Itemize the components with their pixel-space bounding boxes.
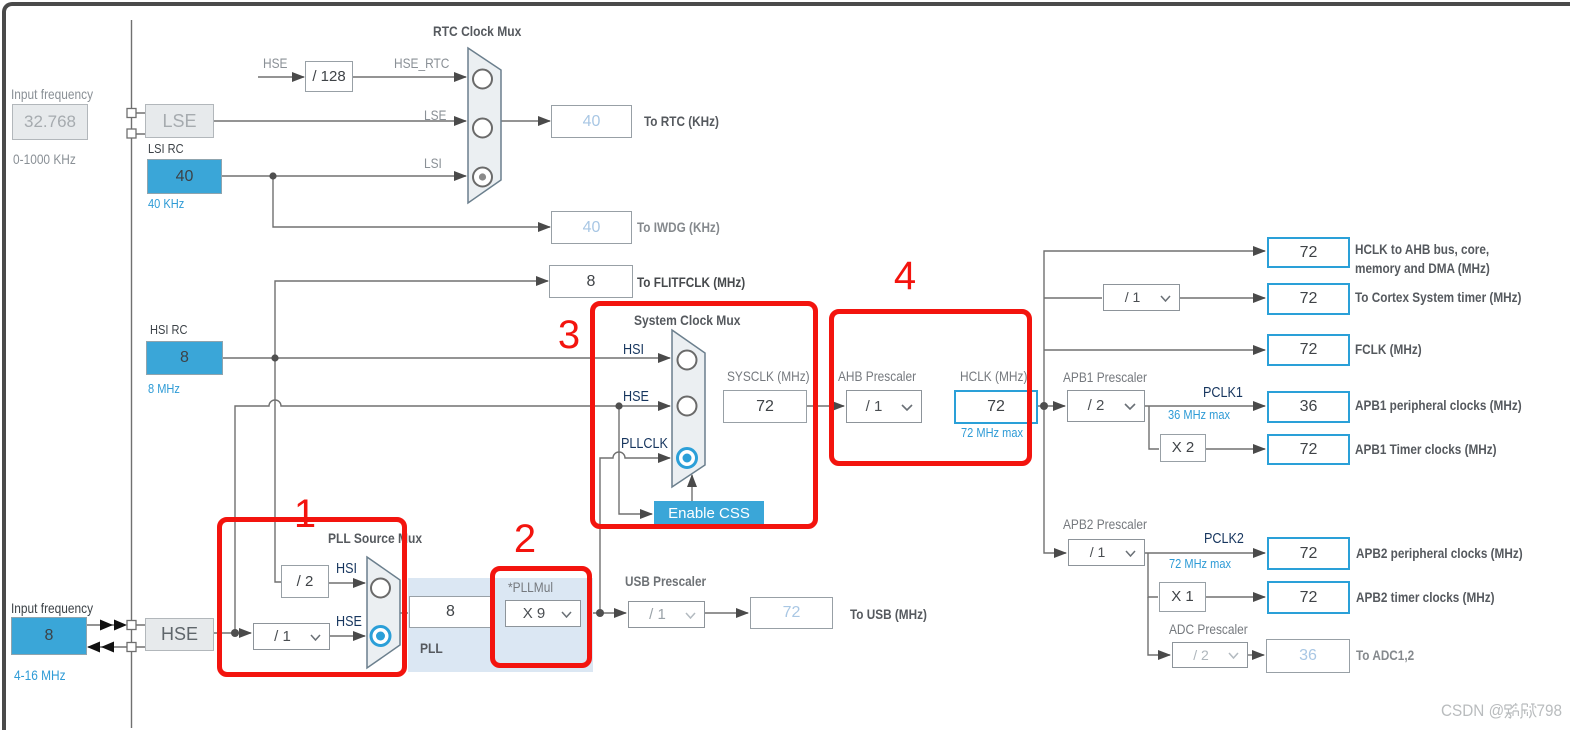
wire: USB prescaler to USB box bbox=[705, 612, 748, 614]
red rect 2: PLLMul bbox=[490, 566, 592, 668]
box: HCLK to AHB 72 bbox=[1267, 237, 1350, 268]
box: HSE input 8 bbox=[11, 617, 87, 655]
box: ADC 36 bbox=[1266, 639, 1350, 673]
label: LSI RC bbox=[148, 141, 184, 156]
dropdown: APB1 prescaler /2 bbox=[1067, 390, 1145, 422]
port squares on bus bbox=[127, 109, 136, 652]
box: To FLITFCLK value bbox=[549, 265, 633, 298]
wire: APB2 prescaler to APB2 peripheral box bbox=[1145, 552, 1265, 554]
box: To RTC value bbox=[551, 105, 632, 138]
wire: branch down to X2 bbox=[1149, 406, 1159, 449]
PLL source mux shape bbox=[367, 557, 400, 668]
box: /128 bbox=[305, 61, 353, 92]
wire: PLLCLK vertical + to system mux PLLCLK input (hop at x=619) bbox=[600, 452, 670, 613]
box: LSE bbox=[145, 104, 214, 138]
wire: RTC mux output to To-RTC box bbox=[501, 120, 550, 122]
box: HCLK 72 bbox=[954, 390, 1038, 424]
wire: Enable CSS up-arrow into mux bbox=[691, 475, 693, 501]
wire: ADC prescaler to ADC box bbox=[1248, 654, 1264, 656]
wire: main clock source vertical bus bbox=[131, 20, 133, 728]
dropdown: APB2 prescaler /1 bbox=[1068, 539, 1145, 566]
wire: PLL /1 to PLL mux HSE input bbox=[330, 635, 365, 637]
wire: bus down to APB2 prescaler bbox=[1044, 406, 1066, 553]
wire: LSI box to RTC mux LSI input bbox=[222, 175, 466, 177]
right bold labels bbox=[644, 113, 719, 129]
box: APB1 timer 72 bbox=[1267, 434, 1350, 465]
wire: HSE branch down to Enable CSS bbox=[619, 406, 652, 514]
box: /2 HSI divider bbox=[281, 565, 329, 598]
red digit 4 bbox=[885, 254, 925, 299]
red rect 3: system clock mux bbox=[590, 301, 818, 529]
box: To IWDG value bbox=[551, 211, 632, 244]
dropdown: PLL entry /1 bbox=[253, 623, 330, 650]
box: FCLK 72 bbox=[1267, 334, 1350, 366]
wire: branch down to X1 bbox=[1148, 553, 1158, 597]
box: USB 72 bbox=[750, 597, 833, 629]
wire: HCLK bus up and to HCLK-AHB output bbox=[1044, 251, 1265, 406]
dropdown: AHB prescaler /1 bbox=[846, 390, 922, 423]
wire: bus to cortex prescaler bbox=[1044, 297, 1102, 299]
box: HSI RC 8 bbox=[146, 341, 223, 375]
red digit 2 bbox=[505, 517, 545, 562]
wire: X2 to APB1 timer box bbox=[1206, 448, 1265, 450]
PLL light blue region bbox=[408, 578, 593, 672]
box: X2 bbox=[1160, 434, 1206, 462]
wire: HCLK box to APB1 prescaler through bus junction bbox=[1038, 405, 1065, 407]
wire: HSE port stubs bbox=[136, 625, 146, 647]
dropdown: ADC prescaler /2 disabled bbox=[1172, 642, 1248, 668]
box: APB1 peripheral 36 bbox=[1267, 391, 1350, 423]
label: HSI RC bbox=[150, 322, 187, 337]
box: LSI 40 bbox=[147, 159, 222, 194]
wire: bus to FCLK output bbox=[1044, 349, 1265, 351]
wire: SYSCLK box to AHB prescaler bbox=[807, 405, 844, 407]
button: Enable CSS bbox=[654, 501, 764, 527]
wire: HSI branch to FLITFCLK bbox=[275, 281, 548, 358]
red rect 4: AHB prescaler/HCLK bbox=[829, 309, 1032, 466]
wire: LSE box to RTC mux LSE input bbox=[214, 120, 466, 122]
prescaler labels bbox=[727, 368, 810, 384]
label: input frequency bottom bbox=[11, 600, 93, 616]
box: APB2 peripheral 72 bbox=[1267, 537, 1350, 570]
wire: APB1 prescaler to APB1 peripheral box bbox=[1145, 405, 1265, 407]
wire: /128 to RTC mux HSE_RTC input bbox=[353, 76, 466, 78]
wire: HSI /2 feed vertical bbox=[275, 358, 281, 582]
watermark bbox=[1441, 701, 1562, 721]
wire: HSE input double arrow lines bbox=[87, 625, 127, 647]
wire: /2 to PLL mux HSI input bbox=[329, 582, 365, 584]
dropdown: USB prescaler /1 disabled bbox=[628, 601, 705, 628]
red digit 1 bbox=[285, 492, 325, 537]
PLL mux radios bbox=[371, 579, 390, 598]
box: APB2 timer 72 bbox=[1267, 581, 1350, 614]
HSE input double arrowheads right bbox=[87, 620, 127, 653]
dropdown: cortex prescaler /1 bbox=[1103, 284, 1180, 311]
box: PLL input 8 bbox=[409, 596, 492, 628]
RTC clock mux shape bbox=[367, 48, 705, 668]
wire: X1 to APB2 timer box bbox=[1206, 596, 1265, 598]
label: HSE top bbox=[263, 55, 287, 71]
RTC mux radios bbox=[473, 70, 492, 187]
box: 32.768 input frequency bbox=[12, 104, 88, 140]
wire: HSE source box to PLL /1 prescaler bbox=[214, 632, 251, 634]
titles bbox=[433, 23, 521, 39]
wire: LSE port stubs bbox=[136, 113, 146, 134]
wire: branch down to ADC prescaler bbox=[1148, 597, 1170, 655]
wire: PLL 8 box to PLLMul bbox=[492, 612, 505, 614]
box: SYSCLK 72 bbox=[723, 390, 807, 423]
wire: PLL mux output bbox=[400, 612, 410, 614]
system clock mux shape bbox=[672, 330, 705, 487]
wire: LSI branch to IWDG bbox=[273, 176, 550, 227]
system mux radios bbox=[678, 351, 697, 416]
wire: HSE to /128 bbox=[258, 76, 304, 78]
wire: PLLMul to USB prescaler bbox=[581, 612, 626, 614]
box: cortex timer 72 bbox=[1267, 283, 1350, 315]
mux input labels navy bbox=[623, 341, 644, 358]
wire: HSI RC to system mux HSI input bbox=[223, 357, 670, 359]
wire: HSE vertical + to system mux HSE input (hop at x=275) bbox=[235, 400, 670, 633]
box: X1 bbox=[1159, 582, 1206, 612]
box: HSE bbox=[145, 618, 214, 651]
red rect 1: PLL source mux bbox=[217, 517, 407, 677]
red digit 3 bbox=[549, 313, 589, 358]
dropdown: PLLMul X9 bbox=[505, 600, 581, 627]
wire: cortex prescaler to output box bbox=[1180, 297, 1265, 299]
label: input frequency top bbox=[11, 86, 93, 102]
